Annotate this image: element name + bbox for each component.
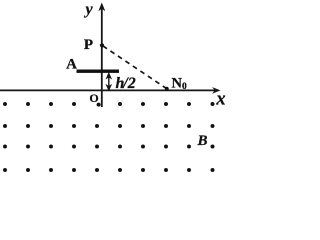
svg-text:O: O [89, 91, 98, 105]
svg-text:A: A [66, 57, 77, 73]
node P dot [100, 43, 104, 47]
dashed line P to N0 [103, 46, 167, 89]
svg-text:/2: /2 [122, 75, 135, 92]
node N0 dot [165, 87, 169, 91]
y-axis [98, 3, 105, 108]
svg-text:N0: N0 [172, 75, 187, 92]
x-axis [0, 87, 221, 94]
field dot grid (B out of page) [3, 102, 214, 172]
svg-text:y: y [83, 1, 93, 18]
svg-text:x: x [215, 90, 225, 110]
plate bar A [77, 70, 120, 73]
svg-text:B: B [196, 133, 207, 149]
dimension arrow h/2 [107, 73, 111, 90]
svg-text:P: P [84, 37, 93, 53]
